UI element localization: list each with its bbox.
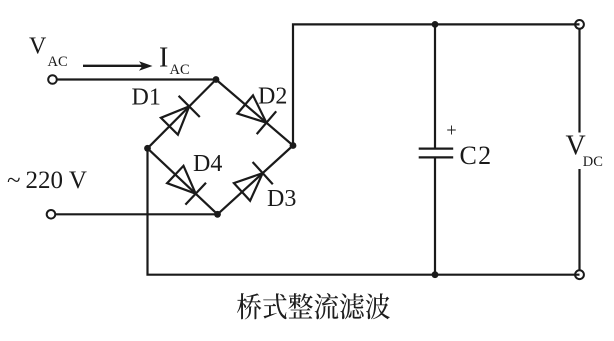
- svg-text:AC: AC: [170, 62, 190, 78]
- diode D2: [237, 95, 276, 134]
- diode D1: [161, 96, 200, 135]
- wire bridge edge left-bottom: [148, 148, 218, 214]
- svg-text:I: I: [159, 43, 168, 74]
- wire bridge edge left-top: [148, 80, 217, 149]
- svg-text:D3: D3: [267, 186, 296, 212]
- svg-text:AC: AC: [48, 54, 68, 70]
- arrow IAC direction: [83, 61, 153, 71]
- node top junction: [213, 76, 220, 83]
- svg-text:C2: C2: [460, 141, 493, 170]
- node right junction: [290, 142, 297, 149]
- wire bottom AC input: [55, 213, 217, 215]
- wire capacitor top lead: [434, 24, 436, 148]
- terminal top-right: [575, 20, 584, 29]
- wire right side lower: [578, 169, 580, 270]
- terminal bottom-right: [575, 270, 584, 279]
- wire left node down to bottom rail: [148, 148, 580, 274]
- terminal bottom-left: [47, 210, 56, 219]
- svg-text:DC: DC: [583, 154, 603, 170]
- diode D4: [167, 166, 206, 205]
- diode D3: [234, 162, 273, 201]
- node capacitor bottom junction: [432, 271, 439, 278]
- svg-text:D4: D4: [193, 151, 222, 177]
- wire bridge edge bottom-right: [218, 146, 294, 215]
- svg-text:+: +: [446, 121, 456, 141]
- svg-text:~ 220 V: ~ 220 V: [7, 167, 87, 194]
- capacitor C2 bottom plate: [419, 156, 454, 158]
- svg-text:D2: D2: [258, 84, 287, 110]
- node left junction: [144, 145, 151, 152]
- wire right side upper: [578, 29, 580, 133]
- wire top AC input: [57, 78, 216, 80]
- node bottom junction: [214, 211, 221, 218]
- wire bridge edge top-right: [216, 80, 293, 146]
- terminal top-left: [48, 75, 57, 84]
- wire right node riser to top rail: [293, 24, 580, 145]
- node capacitor top junction: [432, 21, 439, 28]
- caption bridge rectifier filter: [237, 293, 390, 319]
- capacitor C2 top plate: [419, 148, 454, 150]
- svg-text:D1: D1: [132, 85, 161, 111]
- wire capacitor bottom lead: [434, 157, 436, 274]
- svg-text:V: V: [29, 34, 47, 60]
